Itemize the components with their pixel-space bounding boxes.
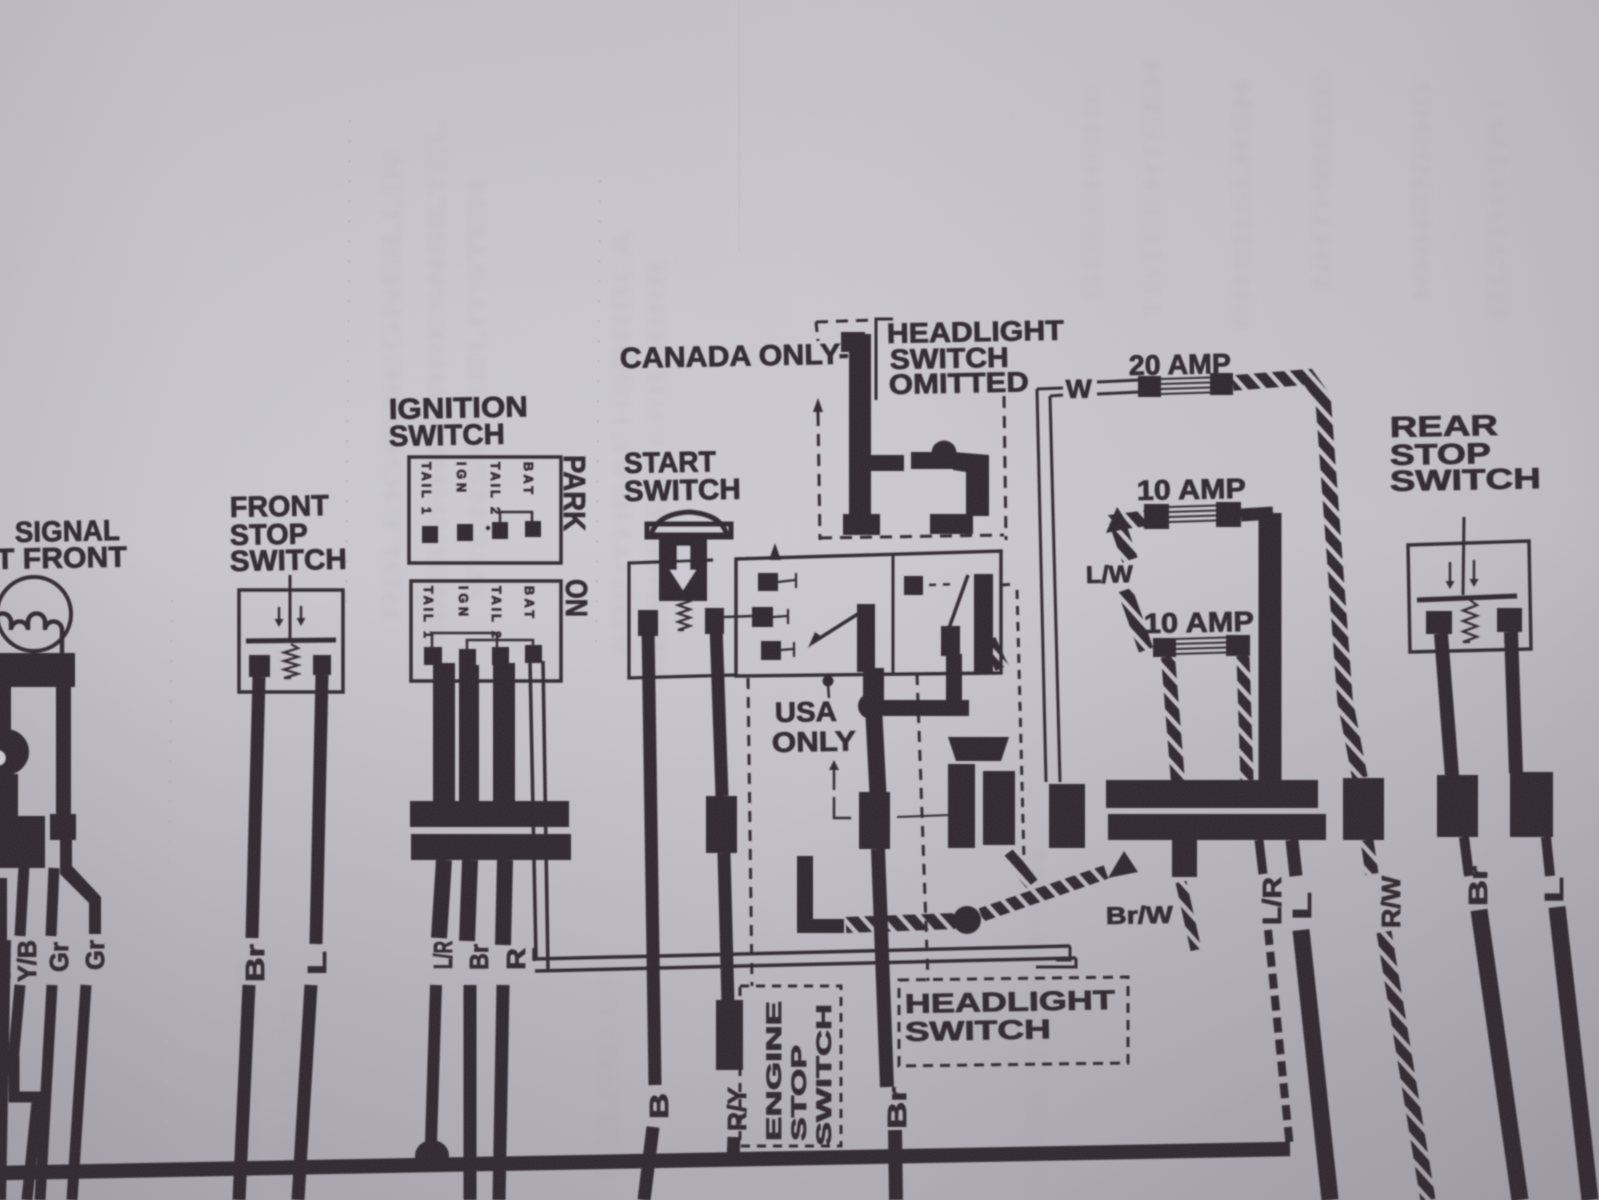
wire Br rear upper [1441, 634, 1452, 776]
wire B lower [644, 1127, 653, 1200]
connector on W pair [1049, 784, 1085, 848]
ON terminal TAIL1 [424, 647, 442, 665]
ignition switch PARK position box [409, 457, 561, 563]
wire L from front stop switch [316, 675, 322, 944]
dimmer contact 3 [761, 641, 781, 660]
ON link IGN-BAT [467, 640, 533, 650]
wire R/W below connector [1367, 840, 1372, 874]
ignition connector bar upper [410, 801, 569, 827]
dimmer moving lever [812, 612, 861, 643]
ON terminal TAIL2 [492, 647, 509, 665]
front stop switch spring [284, 644, 298, 678]
fuse 20A terminal left [1138, 376, 1161, 397]
branch to right cell wire [871, 700, 969, 716]
ON link TAIL1-TAIL2 [432, 633, 497, 648]
rear stop switch terminal left [1426, 611, 1452, 634]
link start switch to ignition contact [724, 616, 753, 617]
right connector bar upper [1106, 780, 1318, 808]
front stop switch terminal right [313, 655, 331, 675]
wire Y/B upper [20, 866, 24, 936]
USA ONLY elbow [834, 797, 851, 818]
wire at left edge [0, 878, 7, 940]
lamp L2 bulb (cut off at edge) [0, 729, 29, 775]
wire hatched below 10A-2 left [1168, 657, 1178, 782]
wire R/Y tail [733, 1137, 734, 1162]
rear stop switch arrow left [1449, 562, 1452, 581]
wire Gr2 lower [72, 985, 86, 1200]
right cell wire down [946, 654, 962, 706]
wire L rear upper [1511, 632, 1516, 773]
canada junction dot [932, 441, 957, 466]
fuse 20A element lines [1161, 378, 1210, 380]
R/Y side stub down [797, 856, 813, 914]
front stop switch terminal left [249, 655, 270, 677]
junction dot on Br/W [953, 906, 981, 934]
small arrow on main box top [769, 543, 781, 560]
wire L/R below bars [439, 860, 444, 938]
headlight bundle connector B [983, 771, 1015, 845]
start switch button base plate [647, 524, 731, 537]
rear stop switch contact bar [1417, 596, 1517, 600]
wire L center to bottom [1301, 930, 1330, 1200]
wire L/W to 10A-2 [1125, 590, 1146, 650]
hatched nub below box corner [989, 640, 1002, 668]
wire Br ignition lower [464, 985, 477, 1200]
thin wire pair right hooks [1056, 946, 1070, 960]
wire Br ignition below bars [467, 860, 470, 941]
ON terminal BAT [525, 645, 542, 663]
engine stop switch dashed box [740, 986, 841, 1146]
connector on R/Y [706, 796, 737, 853]
USA ONLY pointer dot [823, 676, 834, 687]
headlight switch dashed box [899, 977, 1128, 1066]
thin wire pair down a [1037, 389, 1046, 782]
start switch button cap [651, 512, 727, 535]
rear stop switch stem [1463, 517, 1464, 595]
dashed corner right of main box [1002, 584, 1016, 585]
front stop switch arrow left [278, 607, 281, 619]
wire R lower [499, 985, 503, 1200]
connector on R/W wire [1343, 778, 1384, 840]
wire R/Y middle [724, 853, 728, 1005]
wire R/W hatched from 20A fuse [1233, 377, 1360, 778]
dimmer lever 2 [773, 616, 787, 617]
canada elbow down [953, 452, 989, 516]
wire solid down right of fuses [1259, 513, 1282, 782]
dashed line USA right [917, 674, 928, 981]
canada circuit left foot [843, 514, 880, 535]
wire Br center tail [895, 1130, 896, 1200]
ignition switch ON position box [411, 581, 561, 681]
canada circuit top cap [841, 332, 865, 352]
ignition connector bar lower [411, 834, 571, 860]
wire L/W hatched elbow left of 10A-1 [1117, 518, 1148, 560]
wire hatched below 10A-2 right [1243, 656, 1247, 780]
hatched stub below connector B [1008, 853, 1032, 884]
start switch bracket [629, 560, 735, 678]
dimmer contact 2 [752, 607, 773, 627]
dashed line to fuse area [1017, 590, 1024, 860]
wire L/R to junction [431, 985, 436, 1142]
connector on Br center [859, 792, 890, 849]
canada branch right part [911, 452, 953, 469]
wire Br front lower [239, 985, 249, 1200]
ignition wire IGN down [459, 665, 479, 802]
headlight sw lever [949, 575, 968, 628]
headlight bundle connector A [948, 764, 975, 848]
wire L/R bottom horizontal run [0, 1149, 1290, 1173]
canada circuit left bar [849, 334, 871, 519]
dashed line USA left [748, 678, 752, 986]
wire Y/B to bottom [27, 1092, 38, 1200]
wire W double line to fuse [1097, 380, 1139, 382]
ON terminal IGN [459, 649, 476, 667]
fuse 20A terminal right [1210, 373, 1233, 395]
USA ONLY arrow below [833, 770, 836, 790]
wire Y/B lower [13, 985, 20, 1062]
fuse 10A-2 terminal right [1226, 635, 1250, 656]
PARK terminal TAIL1 [422, 526, 438, 543]
connector on L rear [1510, 772, 1553, 837]
rear stop switch box [1408, 541, 1531, 652]
rear stop switch spring [1463, 600, 1477, 642]
right cell contact lower [941, 626, 960, 656]
fuse 10A-2 terminal left [1153, 638, 1176, 657]
main box common bar [857, 604, 875, 672]
canada dashed box left edge with arrow [818, 414, 820, 540]
common bar below box [863, 668, 884, 700]
wire from lamp base left [0, 686, 11, 732]
wire R/Y from start switch [716, 625, 722, 796]
wire L/R center below bars [1259, 840, 1263, 874]
start switch plunger [659, 537, 707, 601]
connector on right lamp wire [50, 814, 76, 840]
rear stop switch terminal right [1497, 608, 1522, 632]
stub bar below bars [1172, 840, 1197, 877]
dimmer lever 3 [781, 649, 793, 650]
wire B from start switch [648, 626, 655, 1085]
fuse 10A-1 terminal left [1144, 504, 1169, 529]
start switch contact left [638, 610, 658, 636]
connector on Br rear [1437, 775, 1478, 837]
canada dashed box top edge [816, 320, 874, 322]
lamp L1 socket base [0, 653, 75, 687]
connector on lamp L2 wire [0, 774, 18, 818]
headlight wire bundle head [948, 737, 1009, 761]
lamp L1 turn signal front bulb [0, 577, 71, 651]
wire Gr diagonal jog [60, 866, 101, 934]
PARK terminal TAIL2 [492, 522, 508, 539]
wire R/W to bottom [1384, 932, 1428, 1200]
bracket for HEADLIGHT SWITCH OMITTED [876, 319, 893, 400]
start switch plunger white arrow [677, 546, 690, 572]
dimmer lever 1 [778, 580, 795, 582]
wire Gr upper [51, 868, 54, 936]
headlight sw contact [904, 576, 923, 595]
wire Gr segment below connector [60, 838, 72, 870]
ignition wire TAIL1 down [433, 663, 455, 802]
wire L rear mid [1546, 837, 1550, 876]
junction dot L/R at bottom line [415, 1140, 449, 1172]
rear stop switch arrow right [1473, 560, 1476, 579]
start switch return spring [678, 597, 690, 630]
headlight sw dashes [929, 584, 956, 585]
ignition BAT thin wire b [543, 661, 548, 970]
front stop switch contact bar [246, 640, 336, 641]
connector 2 on R/Y [716, 1000, 743, 1070]
main switch assembly box [736, 551, 1001, 676]
front stop switch actuator stem [289, 575, 292, 641]
main box divider [892, 553, 895, 674]
wire L front lower [298, 985, 311, 1200]
wire Br center upper [874, 716, 878, 794]
wire L center below bars [1292, 840, 1296, 876]
dimmer contact 1 [758, 573, 778, 591]
PARK link TAIL2-BAT [500, 512, 532, 524]
wire Gr1 lower [40, 985, 52, 1200]
right connector bar lower [1108, 814, 1326, 840]
PARK terminal IGN [457, 524, 473, 541]
wire W bracket to left [1037, 388, 1063, 389]
front stop switch box [239, 590, 343, 692]
right cell dark bar [974, 574, 993, 673]
wire Br/W hatched stub [1181, 882, 1196, 950]
thin wire pair L/R-net horizontal run [534, 946, 1070, 959]
wire Br center mid [878, 849, 887, 1087]
wire L rear to bottom [1557, 907, 1590, 1200]
PARK terminal BAT [525, 521, 541, 537]
wire Br rear mid [1464, 837, 1469, 876]
wire solid from 10A-1 right [1241, 513, 1273, 515]
ignition wire TAIL2 down [493, 663, 515, 802]
canada branch left part [871, 455, 904, 471]
thin tick on dashed line [897, 815, 950, 817]
canada dashed box right edge [1004, 396, 1006, 540]
fuse 10A-1 terminal right [1216, 502, 1241, 527]
ignition BAT thin wire a [530, 661, 536, 958]
junction dot below main box [858, 693, 884, 719]
thin wire pair down b [1050, 396, 1060, 782]
canada circuit right foot [930, 514, 973, 534]
wire L/R center degraded [1268, 930, 1290, 1148]
wire R below bars [503, 860, 505, 945]
wire left edge lower [0, 940, 5, 1200]
front stop switch arrow right [300, 606, 303, 618]
wire Y/B jog right then down [14, 1056, 43, 1097]
lamp L1 filament [0, 614, 62, 656]
connector block left cluster [0, 816, 45, 868]
canada dashed box bottom edge [820, 535, 1004, 538]
start switch contact right [705, 608, 724, 634]
wire Br rear to bottom [1479, 910, 1520, 1200]
wire Br from front stop switch [252, 677, 259, 938]
wire from lamp base right [56, 685, 71, 815]
